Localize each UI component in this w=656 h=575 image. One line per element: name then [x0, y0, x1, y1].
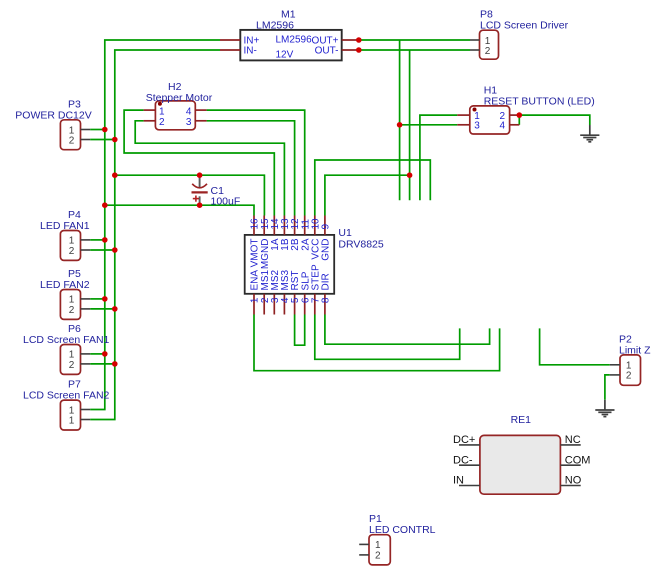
wire GND rail right: U1 GND to Arduino GND vertical [325, 175, 410, 215]
connector P3 POWER DC12V [15, 98, 91, 149]
svg-text:LM2596: LM2596 [256, 19, 294, 31]
P5 pin stub 1 [81, 298, 91, 300]
Arduino Nano A1 board [0, 0, 1, 1]
H2 pin stub 2 [144, 120, 156, 122]
wire U1 ENA to Arduino D8 [254, 315, 500, 371]
svg-text:RESET BUTTON (LED): RESET BUTTON (LED) [484, 95, 595, 107]
junction dot C1 top [197, 172, 203, 178]
svg-text:LED FAN1: LED FAN1 [40, 220, 90, 232]
junction dot P6 pin1 [102, 351, 108, 357]
svg-text:LM2596: LM2596 [276, 35, 313, 46]
connector P7 LCD Screen FAN2 [23, 379, 110, 430]
wire OUT+ to P8 pin1 [359, 39, 470, 41]
RE1 pin stub COM [560, 464, 580, 466]
wire U1 STEP to Arduino D4 [315, 315, 460, 360]
P3 pin stub 2 [81, 139, 91, 141]
svg-text:2: 2 [69, 305, 75, 316]
svg-text:GND: GND [321, 239, 332, 261]
wire P6 pin2 to rail B [90, 363, 115, 365]
connector P6 LCD Screen FAN1 [23, 323, 110, 374]
svg-text:DC+: DC+ [453, 434, 475, 446]
P4 pin stub 1 [81, 239, 91, 241]
RE1 pin stub DC+ [459, 444, 480, 446]
P4 pin stub 2 [81, 249, 91, 251]
svg-text:8: 8 [321, 297, 332, 303]
connector P8 LCD Screen Driver [480, 9, 569, 60]
junction dot M1 OUT- [356, 47, 362, 53]
IC U1 DRV8825 box [245, 227, 384, 294]
svg-text:LED FAN2: LED FAN2 [40, 279, 90, 291]
wire P4 pin2 to rail B [90, 249, 115, 251]
M1 pin stub OUT+ [342, 39, 359, 41]
svg-text:4: 4 [186, 106, 192, 117]
wire H2 pin2 to U1 1B [135, 121, 284, 216]
svg-text:2: 2 [69, 135, 75, 146]
H2 pin stub 3 [195, 120, 206, 122]
P1 pin stub 1 [359, 543, 369, 545]
wire IN- net: M1 IN- to vertical rail B down to P7 pin2 [90, 50, 220, 420]
wire GND vertical from OUT- down to Arduino GND [409, 50, 411, 200]
P3 pin stub 1 [81, 129, 91, 131]
svg-text:IN: IN [453, 475, 464, 487]
svg-text:2: 2 [626, 371, 632, 382]
svg-text:1: 1 [159, 106, 165, 117]
svg-text:NO: NO [565, 475, 582, 487]
U1 bottom pin names [250, 264, 332, 290]
wire P5 pin2 to rail B [90, 308, 115, 310]
wire U1 DIR to Arduino D7 [325, 315, 490, 345]
svg-text:4: 4 [500, 121, 506, 132]
M1 pin stub IN- [220, 49, 240, 51]
P1 pin stub 2 [359, 554, 369, 556]
svg-text:COM: COM [565, 454, 591, 466]
connector P2 Limit Z [619, 333, 651, 385]
junction dot P3 pin2 [112, 137, 118, 143]
RE1 pin stub NC [560, 444, 580, 446]
wire VIN vertical from OUT+ down to Arduino VIN [399, 40, 401, 200]
RE1 pin stub NO [560, 485, 580, 487]
wire IN+ net: M1 IN+ to vertical rail A down to P7 pin1 [90, 40, 220, 410]
svg-text:1: 1 [375, 540, 381, 551]
wire 5V: U1 VCC to Arduino 5V [315, 160, 431, 216]
U1 top pin numbers [250, 218, 332, 230]
wire H1 pin3 tap to VIN vertical [400, 124, 458, 126]
junction dot P6 pin2 [112, 361, 118, 367]
svg-text:12V: 12V [276, 50, 294, 61]
wire OUT- to P8 pin2 [359, 49, 470, 51]
ground symbol at H1 [580, 125, 599, 142]
RE1 pin stub DC- [459, 464, 480, 466]
H1 pin stub 3 [457, 124, 470, 126]
svg-text:9: 9 [321, 224, 332, 230]
junction dot M1 OUT+ [356, 37, 362, 43]
connector P1 LED CONTRL [369, 513, 436, 565]
wire H1 pin2 to ground [519, 115, 590, 125]
svg-text:3: 3 [186, 117, 192, 128]
connector P5 LED FAN2 [40, 268, 90, 319]
junction dot H1 pin3 tap [397, 122, 403, 128]
svg-text:LCD Screen FAN2: LCD Screen FAN2 [23, 390, 110, 402]
svg-text:2: 2 [159, 117, 165, 128]
wire GND rail left to U1 MGND [115, 175, 265, 215]
H1 pin stub 1 [457, 114, 470, 116]
P6 pin stub 2 [81, 363, 91, 365]
junction dot 12V rail at A [102, 202, 108, 208]
wire H2 pin3 to U1 2B [207, 121, 295, 216]
svg-text:LCD Screen FAN1: LCD Screen FAN1 [23, 334, 110, 346]
svg-text:3: 3 [474, 121, 480, 132]
U1 top pin stubs 16..9 [254, 216, 325, 235]
ground symbol at P2 [595, 400, 614, 417]
wire H1 pin4 riser to pin2 junction [518, 115, 520, 125]
wire Arduino D12 to P2 pin1 [540, 328, 610, 364]
H2 pin stub 1 [144, 109, 156, 111]
wire U1 RST-SLP tie loop [295, 315, 305, 346]
svg-text:OUT-: OUT- [315, 46, 339, 57]
connector H1 RESET BUTTON (LED) [470, 84, 595, 134]
junction dot P5 pin2 [112, 306, 118, 312]
svg-text:1: 1 [69, 415, 75, 426]
svg-text:2: 2 [69, 246, 75, 257]
M1 labels [244, 8, 339, 60]
M1 pin stub OUT- [342, 49, 359, 51]
junction dot C1 bottom [197, 202, 203, 208]
H2 pin1 marker dot [158, 102, 162, 106]
junction dot P3 pin1 [102, 127, 108, 133]
junction dot P5 pin1 [102, 296, 108, 302]
H2 pin stub 4 [195, 109, 206, 111]
wire 12V rail to U1 VMOT [105, 205, 254, 215]
H1 pin1 marker dot [473, 108, 477, 112]
svg-text:LED CONTRL: LED CONTRL [369, 524, 436, 536]
M1 pin stub IN+ [220, 39, 240, 41]
P7 pin stub 1 [81, 409, 91, 411]
wire P3 pin1 to rail A [90, 129, 105, 131]
U1 top pin names [250, 238, 332, 269]
svg-text:DC-: DC- [453, 454, 473, 466]
svg-text:DIR: DIR [321, 273, 332, 290]
junction dot GND rail at B [112, 172, 118, 178]
H1 pin stub 4 [510, 124, 520, 126]
capacitor C1 100uF [192, 175, 241, 208]
connector P4 LED FAN1 [40, 209, 90, 260]
wire P5 pin1 to rail A [90, 298, 105, 300]
wire P6 pin1 to rail A [90, 353, 105, 355]
svg-text:2: 2 [375, 551, 381, 562]
RE1 pin labels [453, 434, 590, 487]
P7 pin stub 2 [81, 419, 91, 421]
U1 bottom pin stubs 1..8 [254, 294, 325, 315]
svg-text:IN-: IN- [244, 46, 257, 57]
P2 pin stub 1 [610, 364, 620, 366]
module M1 LM2596 box [240, 30, 341, 61]
wire P4 pin1 to rail A [90, 239, 105, 241]
junction dot P4 pin1 [102, 237, 108, 243]
wire P2 pin2 to ground [605, 375, 610, 400]
svg-text:100uF: 100uF [211, 196, 241, 208]
relay module RE1 [480, 414, 561, 494]
connector H2 Stepper Motor [146, 81, 213, 130]
P6 pin stub 1 [81, 353, 91, 355]
wire H1 pin1 to Arduino RST [420, 115, 457, 200]
svg-text:NC: NC [565, 434, 581, 446]
U1 bottom pin numbers [250, 297, 332, 303]
svg-text:2: 2 [69, 360, 75, 371]
wire H2 pin1 to U1 1A [124, 110, 274, 215]
svg-text:POWER DC12V: POWER DC12V [15, 109, 91, 121]
svg-text:Stepper Motor: Stepper Motor [146, 92, 213, 104]
P8 pin stub 2 [470, 49, 480, 51]
wire P3 pin2 to rail B [90, 139, 115, 141]
H1 pin stub 2 [510, 114, 520, 116]
P2 pin stub 2 [610, 374, 620, 376]
svg-text:DRV8825: DRV8825 [338, 239, 383, 251]
svg-text:2: 2 [485, 46, 491, 57]
svg-text:LCD Screen Driver: LCD Screen Driver [480, 20, 569, 32]
svg-text:RE1: RE1 [511, 414, 532, 426]
junction dot H1 pin2 [517, 112, 523, 118]
svg-text:Limit Z: Limit Z [619, 344, 651, 356]
wire H2 pin4 to U1 2A [207, 110, 305, 215]
junction dot P4 pin2 [112, 247, 118, 253]
P5 pin stub 2 [81, 308, 91, 310]
svg-text:U1: U1 [338, 227, 352, 239]
RE1 pin stub IN [459, 485, 480, 487]
P8 pin stub 1 [470, 39, 480, 41]
junction dot GND rail right [407, 172, 413, 178]
